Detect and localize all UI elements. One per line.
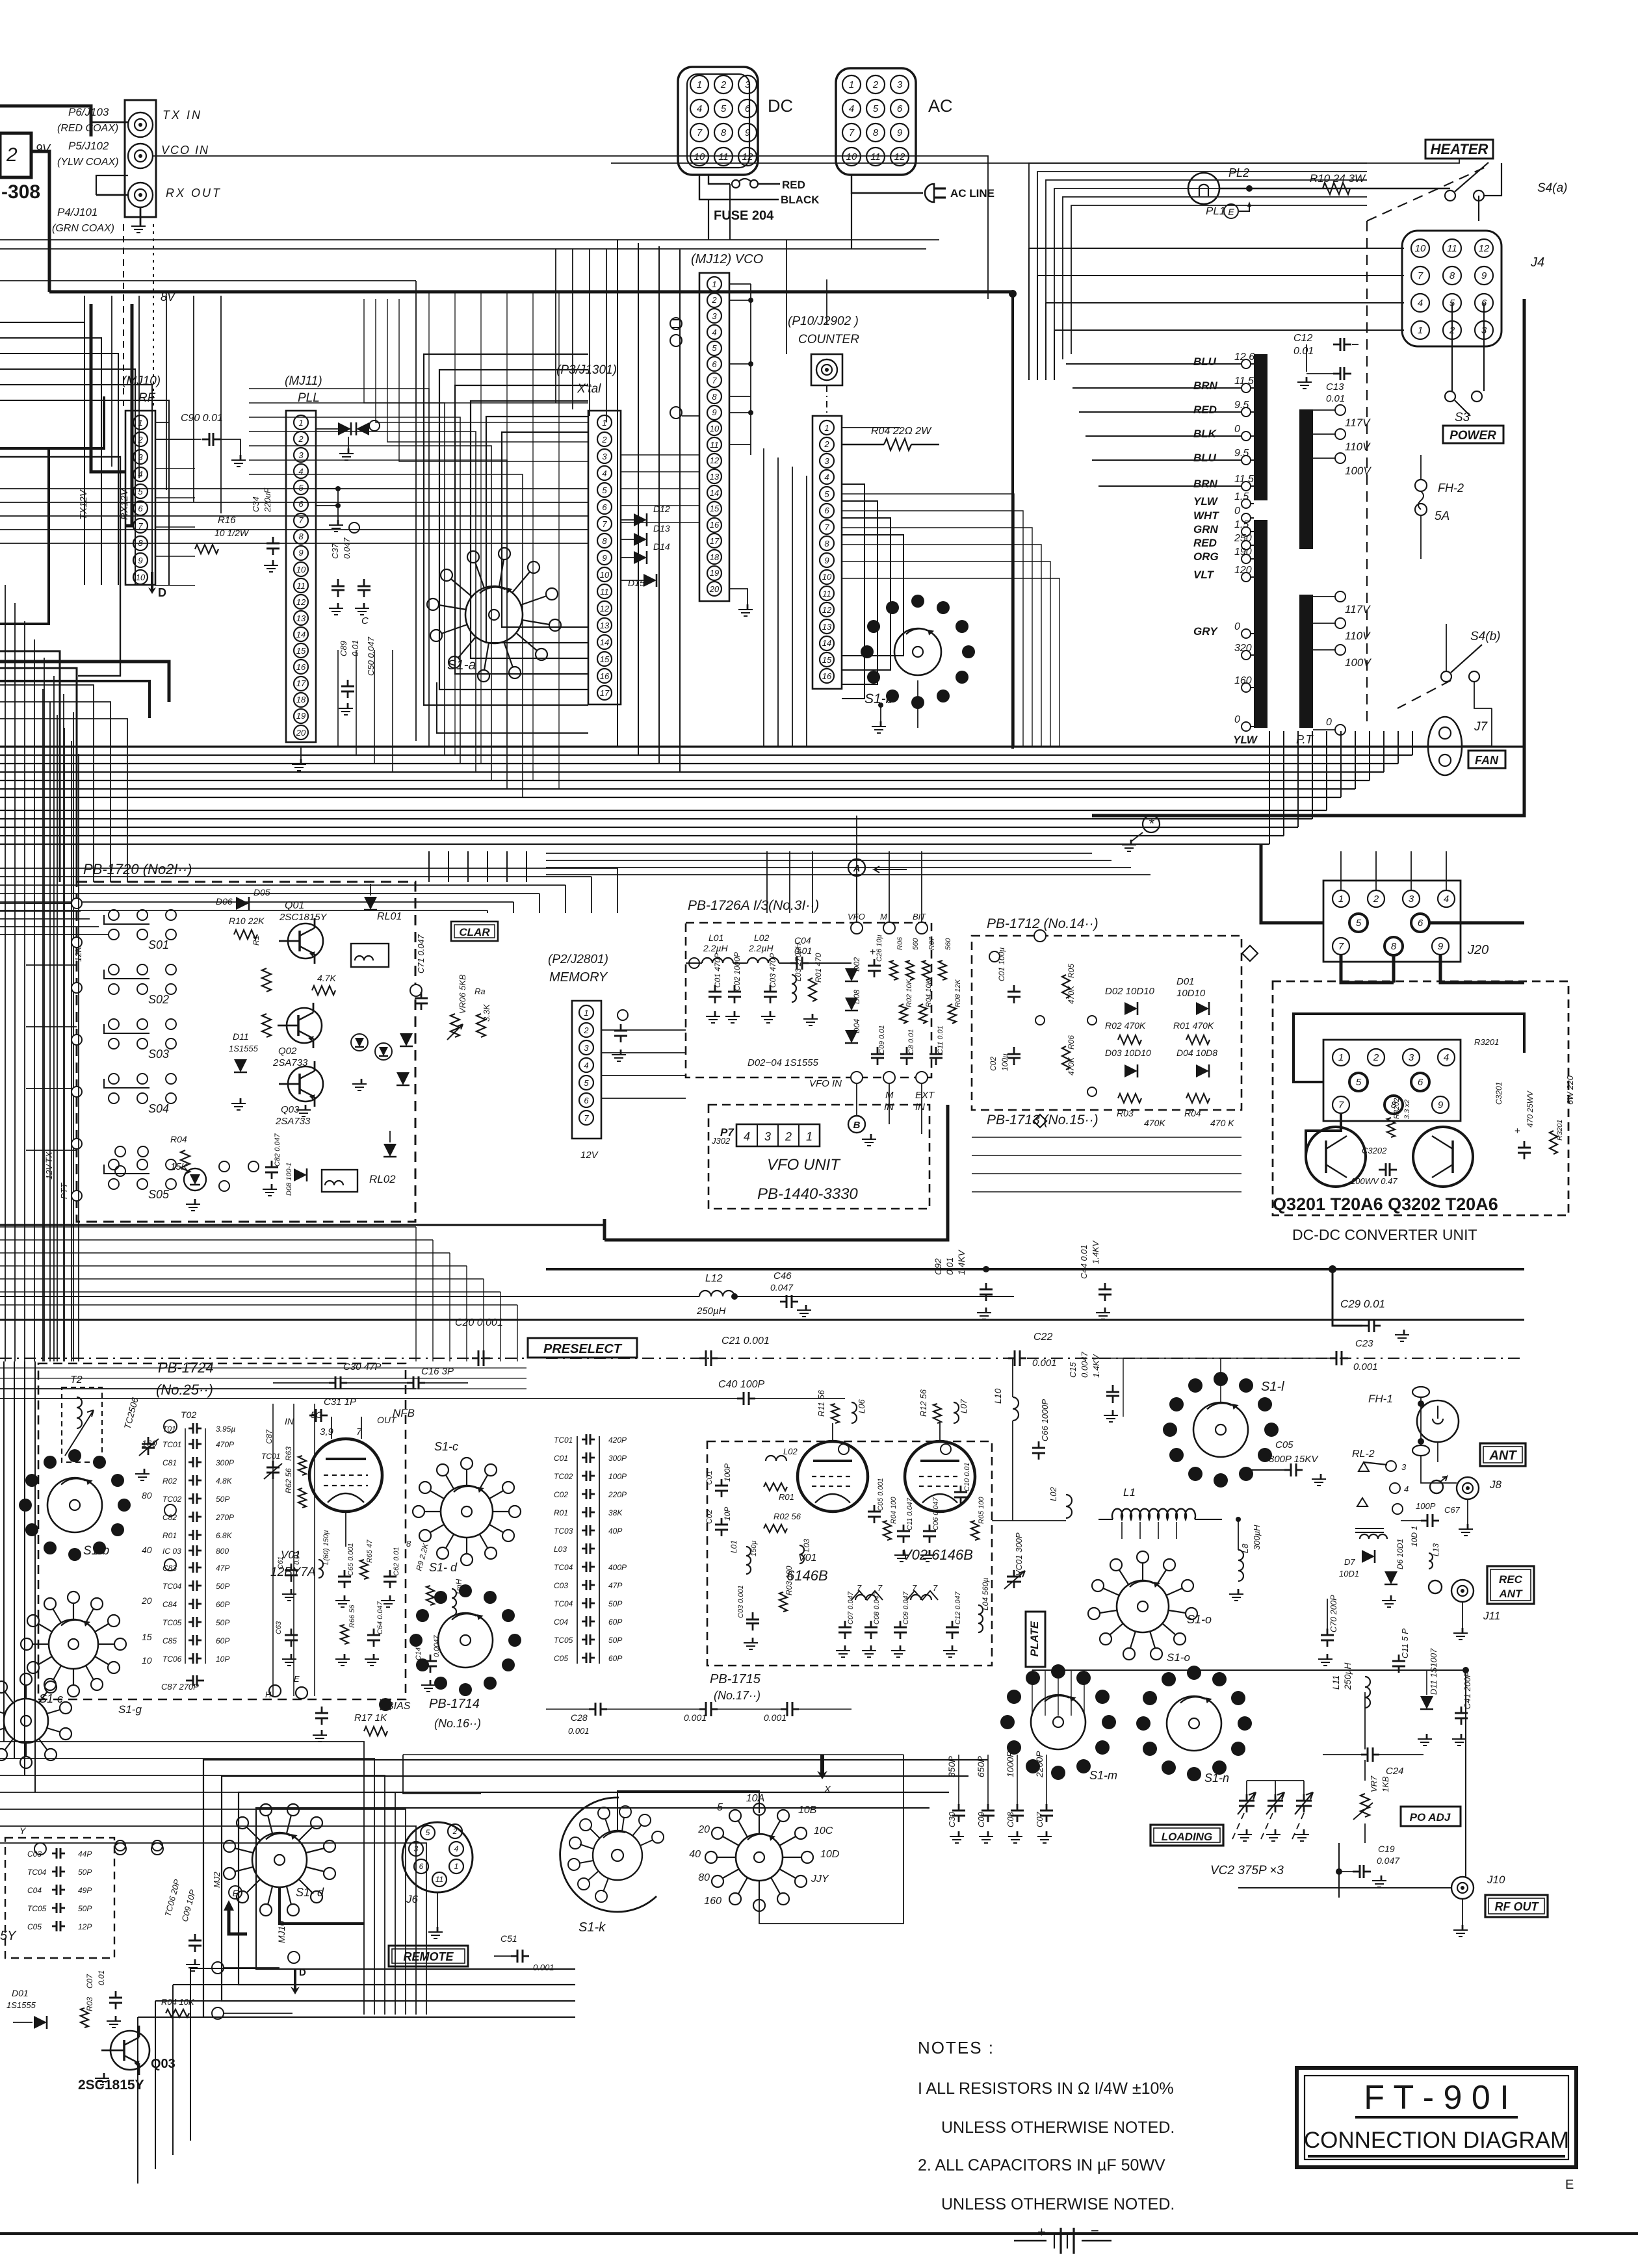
svg-text:L1: L1 (1123, 1486, 1136, 1499)
bold arrow MJ2 E (229, 1909, 247, 1934)
jack J8 (1457, 1477, 1479, 1499)
svg-text:ANT: ANT (1488, 1449, 1517, 1463)
svg-text:C29 0.01: C29 0.01 (1340, 1298, 1385, 1310)
svg-text:3: 3 (897, 79, 903, 90)
svg-text:80: 80 (142, 1490, 152, 1501)
counter coax jack (811, 354, 842, 385)
MJ11 pin 11 (294, 578, 308, 593)
svg-text:16: 16 (822, 671, 832, 681)
resistor VR7 1KB (1360, 1794, 1370, 1817)
counter pin 15 (820, 652, 834, 667)
svg-text:9: 9 (897, 127, 903, 138)
svg-text:49P: 49P (78, 1886, 92, 1895)
svg-text:C01: C01 (705, 1471, 714, 1485)
svg-text:2.2µH: 2.2µH (748, 943, 774, 953)
svg-text:Q01: Q01 (285, 900, 304, 911)
switch S3 (1445, 391, 1455, 402)
svg-text:10P: 10P (216, 1655, 229, 1664)
svg-text:R01 470: R01 470 (814, 953, 823, 983)
DC pin 3 (738, 75, 757, 94)
svg-text:2.2µH: 2.2µH (703, 943, 729, 953)
boxed label LOADING (1150, 1825, 1223, 1846)
MJ12 pin 1 (707, 277, 721, 291)
svg-text:GRN: GRN (1193, 523, 1219, 535)
diode D11 1S1007 (1420, 1696, 1433, 1709)
svg-text:12: 12 (710, 456, 720, 465)
wire L11 to C24 (1364, 1692, 1366, 1749)
svg-text:E: E (1565, 2178, 1574, 2192)
svg-text:C40 100P: C40 100P (718, 1379, 764, 1390)
svg-text:C71 0.047: C71 0.047 (416, 934, 426, 973)
fuse FUSE 204 (708, 175, 730, 184)
svg-text:7: 7 (849, 127, 855, 138)
svg-text:3: 3 (298, 450, 304, 460)
svg-text:T01: T01 (162, 1424, 176, 1434)
MJ10 pin 9 (133, 553, 148, 567)
ground MJ11 bottom (300, 747, 302, 759)
svg-text:R05: R05 (1067, 964, 1076, 978)
J4 pin 12 (1475, 239, 1493, 257)
svg-text:MEMORY: MEMORY (549, 970, 608, 985)
svg-text:12P: 12P (78, 1922, 92, 1931)
svg-text:S3: S3 (1455, 411, 1470, 424)
svg-text:300P: 300P (608, 1454, 627, 1463)
wires pb1726 bottom down (889, 1083, 890, 1124)
svg-text:D11: D11 (233, 1031, 249, 1042)
capacitor C13 0.01 (1333, 373, 1340, 375)
svg-text:560: 560 (944, 938, 952, 950)
svg-text:L03: L03 (802, 1539, 811, 1552)
svg-text:C09 0.01: C09 0.01 (878, 1025, 886, 1054)
resistor R02 56 (764, 1525, 787, 1532)
capacitor C01 100u (989, 951, 1000, 962)
MJ11 pin 18 (294, 693, 308, 707)
svg-text:Q3201 T20A6 Q3202 T20A6: Q3201 T20A6 Q3202 T20A6 (1273, 1194, 1498, 1214)
svg-text:C20 0.001: C20 0.001 (455, 1317, 503, 1328)
svg-text:2200P: 2200P (1034, 1751, 1045, 1778)
svg-text:1000P: 1000P (1005, 1751, 1015, 1777)
DC pin 11 (714, 148, 733, 166)
wire vc2 bus (1247, 1780, 1304, 1781)
svg-text:R03: R03 (85, 1997, 94, 2011)
unit PB-1715 dashed box (707, 1441, 992, 1666)
svg-text:FH-2: FH-2 (1438, 482, 1464, 495)
svg-text:5: 5 (873, 103, 879, 114)
MJ11 pin 12 (294, 595, 308, 609)
svg-text:470K: 470K (1144, 1118, 1165, 1128)
wire long bottom loop (364, 2015, 1092, 2184)
svg-text:(P10/J2902 ): (P10/J2902 ) (788, 315, 859, 328)
diode D15 (643, 574, 656, 587)
svg-text:L04 560µ: L04 560µ (981, 1578, 990, 1610)
inductor L02 right (1066, 1495, 1072, 1518)
wire steps into PB-1720 top (428, 851, 430, 882)
wires memory to pb1726 (601, 1029, 686, 1031)
DC pin 4 (690, 99, 708, 118)
MJ10 pin 8 (133, 536, 148, 550)
svg-text:C12 0.047: C12 0.047 (954, 1591, 962, 1625)
tube V01 6146B (798, 1441, 868, 1512)
MJ11 pin 3 (294, 448, 308, 462)
svg-text:2SC1815Y: 2SC1815Y (279, 912, 328, 923)
resistor 3.3K (476, 1014, 486, 1037)
svg-text:1: 1 (1338, 1052, 1344, 1063)
wire steps between strips (364, 299, 588, 403)
wires dense left of PB1726 (617, 868, 686, 869)
unit PB-1724 dashed box (38, 1363, 406, 1699)
svg-text:60P: 60P (608, 1654, 622, 1663)
open nodes bottom (115, 1146, 125, 1157)
svg-text:50P: 50P (608, 1636, 622, 1645)
svg-text:VFO UNIT: VFO UNIT (767, 1156, 841, 1174)
crossover wires xtal (0, 454, 588, 456)
svg-text:14: 14 (822, 638, 831, 648)
wires ladder2 to switch (623, 1449, 656, 1450)
svg-text:4: 4 (712, 328, 716, 337)
svg-text:D6 10D1: D6 10D1 (1396, 1539, 1405, 1569)
svg-text:20: 20 (709, 584, 720, 594)
DC pin 6 (738, 99, 757, 118)
svg-text:12V: 12V (580, 1150, 599, 1161)
svg-text:1.4KV: 1.4KV (956, 1249, 967, 1275)
svg-text:5: 5 (824, 489, 829, 499)
svg-text:2: 2 (137, 435, 143, 445)
boxed label PLATE rotated (1026, 1612, 1045, 1667)
AC line plug (851, 175, 923, 193)
svg-text:M: M (880, 912, 887, 921)
wire PA out bus (1092, 1669, 1327, 1671)
verticals through PB-1724 (272, 1404, 274, 1696)
transistor Q03 2SA733 (288, 1066, 323, 1102)
svg-text:560: 560 (912, 938, 920, 950)
bold center vertical (1011, 294, 1014, 749)
svg-text:1: 1 (584, 1008, 588, 1018)
unit VFO dashed box (708, 1105, 929, 1209)
svg-text:C04: C04 (554, 1617, 568, 1627)
svg-text:4: 4 (454, 1844, 459, 1853)
capacitor 470 25WV (1524, 1141, 1526, 1148)
inductor L03 270uH (792, 975, 796, 1002)
diode D08 (294, 1168, 307, 1181)
node E circled (1224, 204, 1238, 218)
svg-text:(No.16··): (No.16··) (434, 1717, 481, 1730)
connector J6 round (402, 1822, 473, 1892)
svg-text:6: 6 (1418, 1077, 1423, 1088)
svg-text:CONNECTION DIAGRAM: CONNECTION DIAGRAM (1304, 2128, 1569, 2153)
svg-text:MJ2: MJ2 (212, 1872, 222, 1888)
wires tubes (832, 1423, 833, 1441)
svg-text:D04 10D8: D04 10D8 (1176, 1048, 1217, 1058)
svg-text:L02: L02 (1048, 1487, 1058, 1501)
Xtal pin 9 (597, 550, 612, 565)
svg-text:650P: 650P (976, 1756, 986, 1777)
svg-text:470K: 470K (1067, 985, 1076, 1004)
svg-text:6: 6 (897, 103, 903, 114)
J4 pin 6 (1475, 294, 1493, 312)
svg-text:100WV 0.47: 100WV 0.47 (1351, 1176, 1397, 1186)
svg-text:7: 7 (1338, 941, 1344, 952)
svg-text:S1-g: S1-g (118, 1703, 142, 1716)
svg-text:C08: C08 (1006, 1811, 1015, 1827)
svg-text:R01: R01 (554, 1508, 568, 1517)
wires VCO right stubs (729, 283, 751, 285)
svg-text:7: 7 (584, 1113, 589, 1123)
svg-text:TC01: TC01 (554, 1436, 573, 1445)
svg-text:S4(b): S4(b) (1470, 630, 1500, 643)
DCDC pin 7 (1332, 1096, 1349, 1113)
svg-text:5A: 5A (1435, 509, 1449, 523)
resistor VR06 5KB (450, 1014, 460, 1037)
svg-text:6: 6 (419, 1862, 424, 1871)
long wires upper area (0, 239, 939, 240)
svg-text:X'tal: X'tal (577, 382, 601, 396)
wires top corners to VCO (555, 249, 556, 403)
svg-text:6: 6 (745, 103, 751, 114)
svg-text:J7: J7 (1474, 720, 1488, 734)
svg-text:C11 0.01: C11 0.01 (937, 1025, 944, 1054)
jack RX OUT (128, 183, 153, 207)
node A circled (848, 859, 865, 876)
svg-text:*: * (1149, 816, 1155, 832)
svg-text:S05: S05 (148, 1188, 170, 1201)
svg-text:250µH: 250µH (1342, 1662, 1353, 1690)
svg-text:C08 0.047: C08 0.047 (873, 1591, 881, 1625)
node BIAS star (379, 1698, 392, 1711)
svg-text:2: 2 (601, 435, 607, 445)
J6 pin 3 (409, 1842, 423, 1856)
wire heavy verticals center (766, 851, 768, 913)
MJ12 pin 7 (707, 373, 721, 387)
svg-text:C05: C05 (27, 1922, 42, 1931)
wires VCO-counter verticals (763, 448, 764, 747)
svg-text:S1- d: S1- d (429, 1561, 458, 1574)
wire nested frames REMOTE group (203, 1760, 988, 2017)
svg-text:C11 5 P: C11 5 P (1400, 1629, 1410, 1658)
boxed label ANT (1480, 1443, 1526, 1466)
J20 pin 7 (1332, 938, 1349, 955)
transformer pickup (1360, 1534, 1387, 1539)
svg-text:D01: D01 (1176, 976, 1195, 987)
svg-text:C65 0.001: C65 0.001 (347, 1543, 355, 1576)
triangle node (1357, 1498, 1368, 1506)
boxed label REMOTE (389, 1946, 468, 1966)
svg-text:7: 7 (933, 1583, 938, 1593)
wires PB1720 to left edge (26, 903, 77, 904)
caps C84 0.047 etc (321, 1707, 323, 1713)
svg-text:10: 10 (600, 570, 610, 580)
svg-text:16: 16 (296, 662, 306, 672)
svg-text:11.5: 11.5 (1234, 474, 1254, 485)
svg-text:2SC1815Y: 2SC1815Y (78, 2078, 144, 2093)
switch S4(a) (1445, 190, 1455, 201)
svg-text:15: 15 (600, 654, 610, 664)
svg-text:16: 16 (710, 520, 720, 530)
svg-text:44P: 44P (78, 1849, 92, 1859)
svg-text:0.047: 0.047 (342, 537, 352, 559)
svg-text:C07: C07 (85, 1974, 94, 1989)
svg-text:(P2/J2801): (P2/J2801) (548, 953, 608, 966)
LED pair (351, 1034, 368, 1051)
resistor R3201 right (1550, 1131, 1557, 1154)
switch S01 (109, 910, 119, 920)
counter pin 6 (820, 504, 834, 518)
svg-text:15: 15 (142, 1632, 152, 1642)
small parts near MJ10 (155, 422, 169, 423)
svg-text:COUNTER: COUNTER (798, 333, 859, 346)
capacitor C02 100u (1013, 1047, 1015, 1054)
MJ10 pin 7 (133, 519, 148, 533)
svg-text:9.5: 9.5 (1234, 400, 1249, 411)
memory pin 6 (579, 1093, 593, 1107)
MJ12 pin 4 (707, 325, 721, 339)
svg-text:80: 80 (698, 1872, 710, 1883)
capacitor C66 1000P (1038, 1441, 1040, 1448)
counter pin 2 (820, 437, 834, 452)
wires upper-left steps dense (0, 322, 84, 585)
wire bottom rotary links (759, 1755, 903, 1924)
svg-text:C61: C61 (277, 1556, 285, 1569)
ground B (856, 1083, 857, 1116)
wires counter top loop (826, 279, 827, 325)
svg-text:1S1555: 1S1555 (229, 1044, 259, 1053)
svg-text:+: + (1514, 1126, 1520, 1137)
svg-text:12: 12 (600, 604, 610, 613)
svg-text:10: 10 (694, 151, 705, 162)
Xtal pin 4 (597, 466, 612, 480)
svg-text:C03 470P: C03 470P (768, 953, 777, 988)
svg-text:60P: 60P (216, 1600, 229, 1609)
caps C09 C8 C11 0.01 row (877, 1047, 879, 1054)
svg-text:470K: 470K (1067, 1057, 1076, 1076)
svg-text:(No.25··): (No.25··) (156, 1382, 213, 1398)
wires preselect extra (0, 1388, 416, 1389)
svg-text:19: 19 (296, 711, 305, 721)
resistor R05 (1062, 975, 1070, 998)
svg-text:L02: L02 (783, 1447, 798, 1456)
svg-text:270P: 270P (215, 1513, 234, 1522)
svg-text:150µ: 150µ (750, 1540, 758, 1556)
wire bold TX12V feed (91, 304, 125, 472)
Xtal pin 3 (597, 449, 612, 463)
svg-text:C3202: C3202 (1362, 1146, 1387, 1155)
Xtal pin 14 (597, 635, 612, 649)
svg-text:(No.17··): (No.17··) (714, 1689, 760, 1702)
J4 pin 4 (1411, 294, 1429, 312)
switch S05 extra contacts (219, 1161, 229, 1172)
tube V01 12BY7A (309, 1439, 382, 1512)
svg-text:47P: 47P (608, 1581, 622, 1590)
svg-text:H: H (265, 1690, 272, 1699)
rotary switch S1-b (894, 628, 941, 675)
left vertical bundle (5, 585, 6, 1361)
boxed label REC ANT (1487, 1566, 1534, 1604)
svg-text:0.01: 0.01 (97, 1970, 106, 1985)
svg-text:YLW: YLW (1193, 495, 1219, 508)
svg-text:R02: R02 (162, 1476, 177, 1486)
svg-text:T02: T02 (181, 1410, 196, 1420)
svg-text:9: 9 (138, 556, 142, 565)
switch S4(b) (1441, 671, 1451, 682)
rotary S1-d right (438, 1613, 493, 1668)
svg-text:1.5: 1.5 (1234, 491, 1249, 502)
wires pb1726 top pins up (856, 851, 857, 922)
svg-text:BLK: BLK (1193, 428, 1217, 440)
svg-text:3: 3 (1409, 1052, 1414, 1063)
svg-text:7: 7 (298, 515, 304, 525)
svg-text:0: 0 (1234, 424, 1240, 435)
svg-text:C07 0.047: C07 0.047 (847, 1591, 855, 1625)
svg-text:C02 1000P: C02 1000P (733, 952, 742, 991)
resistor chain vertical (262, 968, 271, 992)
switch S05 (109, 1159, 119, 1170)
svg-text:L(60) 150µ: L(60) 150µ (322, 1530, 330, 1565)
page bottom border (0, 2232, 1638, 2235)
capacitor C14 (430, 1655, 432, 1661)
svg-text:10P: 10P (723, 1507, 732, 1521)
svg-text:2: 2 (711, 295, 717, 305)
svg-text:E: E (294, 1674, 300, 1684)
resistor R04b 470K (1186, 1094, 1210, 1103)
svg-text:2SA733: 2SA733 (275, 1116, 311, 1127)
svg-text:12: 12 (822, 605, 832, 615)
rotary S1-k fan (560, 1798, 656, 1912)
Xtal pin 5 (597, 483, 612, 497)
svg-text:D01: D01 (12, 1988, 29, 1998)
svg-text:8: 8 (721, 127, 727, 138)
svg-text:C12: C12 (1293, 333, 1312, 344)
svg-text:S1- d: S1- d (296, 1886, 324, 1899)
svg-text:1: 1 (454, 1862, 459, 1871)
counter pin 8 (820, 536, 834, 550)
svg-text:C62 0.01: C62 0.01 (393, 1547, 400, 1576)
resistor R03 470K (1118, 1094, 1141, 1103)
svg-text:9: 9 (298, 548, 303, 558)
svg-text:11: 11 (710, 440, 719, 450)
svg-text:100P: 100P (723, 1463, 732, 1482)
svg-text:TX IN: TX IN (162, 109, 202, 122)
wire bundle center horizontal (0, 745, 1524, 747)
svg-text:4: 4 (744, 1130, 750, 1143)
svg-text:3.3 x2: 3.3 x2 (1403, 1100, 1411, 1119)
svg-text:C09 0.047: C09 0.047 (902, 1591, 910, 1625)
svg-text:10D 1: 10D 1 (1410, 1526, 1419, 1547)
AC pin 9 (890, 123, 909, 142)
svg-text:4: 4 (584, 1061, 588, 1070)
svg-text:TC01: TC01 (261, 1452, 280, 1461)
svg-text:C8 0.01: C8 0.01 (907, 1029, 915, 1054)
svg-text:VCO IN: VCO IN (161, 144, 209, 157)
svg-text:R01 470K: R01 470K (1173, 1020, 1214, 1031)
diode D7 10D1 (1362, 1550, 1375, 1563)
wire heater top (611, 159, 1459, 163)
counter pin 1 (820, 420, 834, 435)
svg-text:E: E (233, 1888, 239, 1898)
svg-text:12: 12 (296, 597, 306, 607)
DCDC pin 3 (1403, 1049, 1420, 1066)
svg-text:R02 10K: R02 10K (905, 979, 913, 1007)
svg-text:0.001: 0.001 (684, 1712, 707, 1723)
svg-text:3: 3 (602, 452, 607, 461)
wires S1m S1n to VC2 (1085, 1722, 1247, 1781)
MJ11 pin 6 (294, 497, 308, 511)
svg-text:R01: R01 (779, 1492, 794, 1502)
capacitor C70 200P (1327, 1629, 1329, 1635)
svg-text:L11: L11 (1331, 1675, 1341, 1690)
wires into memory strip (0, 1013, 572, 1014)
svg-text:S04: S04 (148, 1102, 169, 1115)
svg-text:PL2: PL2 (1228, 166, 1249, 179)
tube V02 6146B (905, 1441, 975, 1512)
